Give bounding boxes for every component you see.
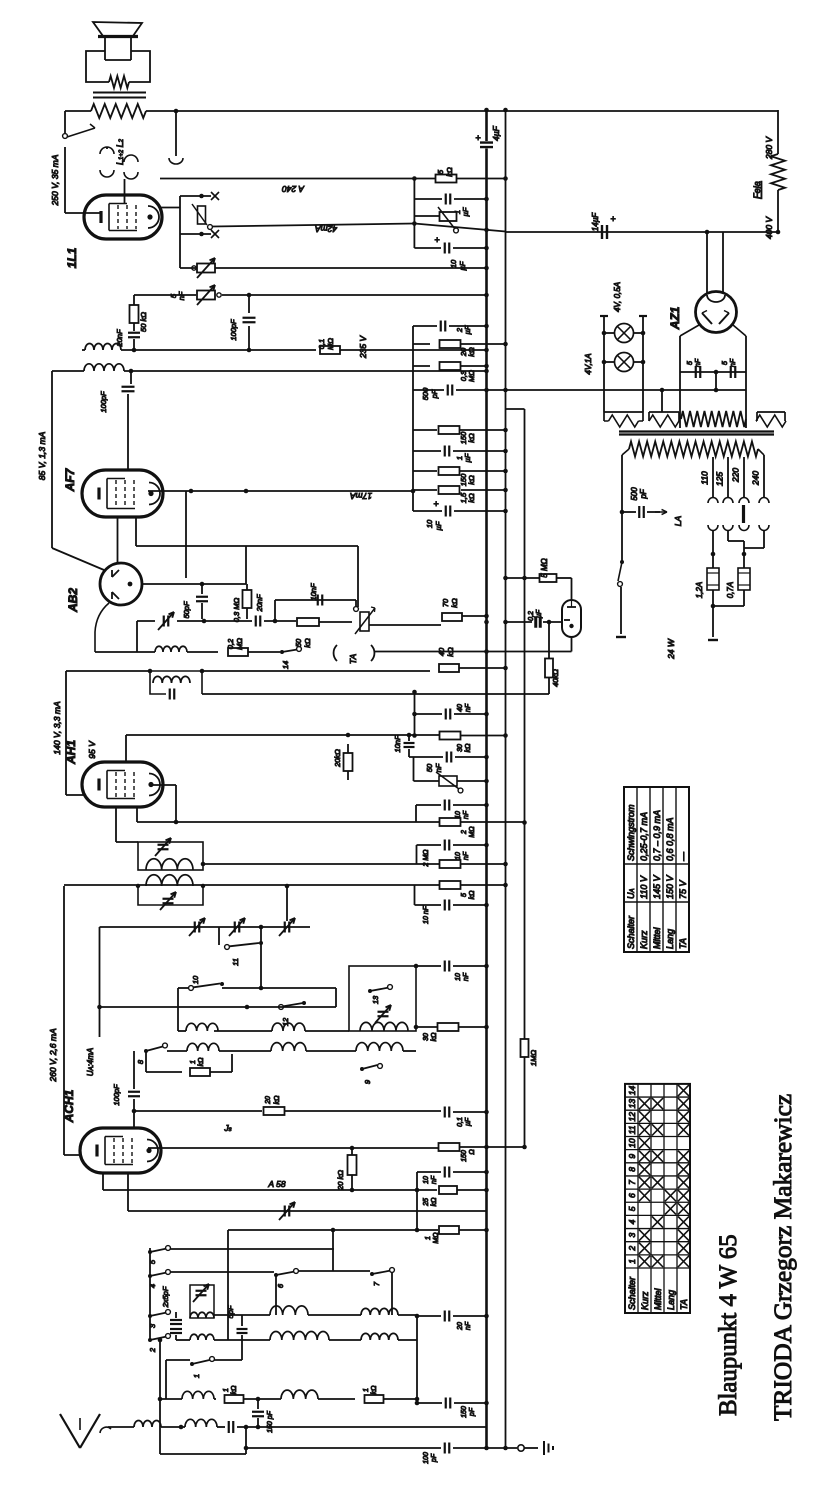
svg-text:MΩ: MΩ	[326, 338, 335, 350]
svg-text:MΩ: MΩ	[235, 638, 244, 650]
svg-text:kΩ: kΩ	[467, 433, 476, 443]
svg-text:2: 2	[148, 1347, 157, 1353]
svg-text:10: 10	[423, 1176, 430, 1184]
svg-text:4µF: 4µF	[491, 125, 501, 141]
svg-text:145 V: 145 V	[652, 874, 662, 899]
svg-text:AB2: AB2	[66, 588, 80, 613]
svg-text:3: 3	[627, 1232, 637, 1237]
svg-text:150: 150	[461, 1150, 468, 1162]
svg-text:Schalter: Schalter	[626, 915, 636, 949]
svg-text:kΩ: kΩ	[431, 1197, 438, 1207]
svg-text:nF: nF	[177, 291, 186, 300]
svg-text:Schalter: Schalter	[627, 1276, 637, 1310]
svg-text:500: 500	[630, 487, 639, 501]
svg-text:500: 500	[421, 387, 430, 400]
svg-text:11: 11	[231, 958, 240, 966]
svg-text:1MΩ: 1MΩ	[529, 1050, 538, 1066]
svg-text:ACH1: ACH1	[62, 1089, 76, 1123]
svg-text:10 nF: 10 nF	[423, 905, 430, 924]
svg-text:13: 13	[371, 995, 380, 1004]
svg-text:nF: nF	[431, 1175, 438, 1184]
svg-text:0,2: 0,2	[528, 611, 535, 621]
svg-text:nF: nF	[730, 358, 737, 367]
svg-text:µF: µF	[458, 261, 467, 270]
svg-text:20kΩ: 20kΩ	[333, 749, 342, 768]
svg-text:pF: pF	[639, 488, 648, 499]
svg-text:7: 7	[627, 1180, 637, 1185]
svg-text:0,6 0,8 mA: 0,6 0,8 mA	[665, 817, 675, 861]
svg-text:100pF: 100pF	[99, 391, 108, 413]
svg-text:24 W: 24 W	[666, 638, 676, 660]
svg-text:5: 5	[722, 361, 729, 365]
svg-text:—: —	[678, 851, 688, 862]
svg-text:110 V: 110 V	[639, 875, 649, 899]
svg-text:220: 220	[731, 468, 741, 483]
svg-text:Kurz: Kurz	[639, 930, 649, 949]
svg-text:4V,1A: 4V,1A	[584, 353, 593, 374]
svg-text:5: 5	[436, 169, 445, 174]
svg-text:Fela: Fela	[752, 181, 762, 199]
svg-text:L1+2 L2: L1+2 L2	[115, 138, 125, 165]
svg-text:10: 10	[449, 259, 458, 268]
svg-text:nF: nF	[465, 703, 472, 712]
svg-text:85 V, 1,3 mA: 85 V, 1,3 mA	[37, 431, 47, 480]
svg-text:20: 20	[265, 1096, 272, 1105]
svg-text:+: +	[475, 133, 480, 143]
svg-text:4: 4	[627, 1219, 637, 1224]
svg-text:5: 5	[687, 361, 694, 365]
svg-text:kΩ: kΩ	[431, 1032, 438, 1042]
svg-text:20 kΩ: 20 kΩ	[336, 1170, 345, 1191]
svg-text:kΩ: kΩ	[450, 598, 459, 608]
svg-text:20nF: 20nF	[255, 594, 264, 613]
svg-text:Ω: Ω	[469, 1149, 476, 1155]
svg-text:0,3 MΩ: 0,3 MΩ	[232, 597, 241, 622]
svg-text:10: 10	[455, 852, 462, 860]
svg-text:Blaupunkt 4 W 65: Blaupunkt 4 W 65	[715, 1234, 742, 1416]
svg-text:140 V, 3,3 mA: 140 V, 3,3 mA	[52, 701, 62, 755]
svg-text:5: 5	[461, 893, 468, 897]
svg-text:MΩ: MΩ	[467, 370, 476, 382]
svg-text:240: 240	[751, 471, 761, 486]
svg-text:µF: µF	[463, 453, 472, 462]
svg-text:µF: µF	[536, 609, 543, 618]
svg-text:10nF: 10nF	[309, 583, 318, 601]
svg-text:12: 12	[627, 1112, 637, 1122]
svg-text:150 pF: 150 pF	[267, 1410, 274, 1433]
svg-text:235 V: 235 V	[358, 335, 368, 360]
svg-text:150 V: 150 V	[665, 874, 675, 899]
svg-text:5: 5	[627, 1206, 637, 1211]
svg-text:125: 125	[715, 472, 725, 486]
svg-text:2: 2	[627, 1246, 637, 1252]
svg-text:UA:4mA: UA:4mA	[86, 1048, 95, 1076]
svg-text:kΩ: kΩ	[467, 493, 476, 503]
svg-text:5pF: 5pF	[226, 1305, 235, 1318]
svg-text:Kurz: Kurz	[640, 1291, 650, 1310]
svg-text:AF7: AF7	[63, 467, 77, 492]
svg-text:kΩ: kΩ	[446, 647, 455, 657]
svg-text:9: 9	[627, 1154, 637, 1159]
svg-text:MΩ: MΩ	[433, 1232, 440, 1244]
svg-text:40: 40	[457, 704, 464, 712]
svg-text:µF: µF	[465, 1117, 472, 1126]
svg-text:nF: nF	[434, 763, 443, 772]
svg-text:50: 50	[425, 763, 434, 772]
svg-text:pF: pF	[469, 1407, 476, 1417]
svg-text:Js: Js	[223, 1123, 231, 1133]
svg-text:1: 1	[425, 1236, 432, 1240]
svg-text:8: 8	[627, 1167, 637, 1172]
svg-text:2 MΩ: 2 MΩ	[423, 849, 430, 868]
svg-text:100: 100	[423, 1452, 430, 1464]
svg-text:100pF: 100pF	[112, 1084, 121, 1106]
svg-text:13: 13	[627, 1099, 637, 1109]
svg-text:A 240: A 240	[282, 184, 305, 194]
svg-text:6: 6	[627, 1193, 637, 1198]
svg-text:1: 1	[363, 1388, 370, 1392]
svg-text:17mA: 17mA	[350, 491, 373, 501]
svg-text:0,1: 0,1	[317, 339, 326, 349]
svg-text:14: 14	[627, 1085, 637, 1095]
svg-text:1: 1	[190, 1060, 197, 1064]
svg-text:kΩ: kΩ	[371, 1385, 378, 1395]
svg-text:10: 10	[191, 975, 200, 984]
svg-text:25: 25	[423, 1198, 430, 1207]
svg-text:TA: TA	[678, 938, 688, 949]
svg-text:8: 8	[136, 1059, 145, 1064]
svg-text:9: 9	[363, 1079, 372, 1084]
svg-text:2x5pF: 2x5pF	[161, 1286, 170, 1308]
svg-text:AH1: AH1	[64, 740, 78, 765]
svg-text:1,2A: 1,2A	[695, 582, 704, 598]
svg-text:14µF: 14µF	[591, 212, 600, 232]
svg-text:30: 30	[457, 744, 464, 752]
svg-text:kΩ: kΩ	[445, 167, 454, 177]
svg-text:kΩ: kΩ	[198, 1057, 205, 1067]
svg-text:50: 50	[294, 638, 303, 647]
svg-text:TA: TA	[679, 1299, 689, 1310]
svg-text:AZ1: AZ1	[668, 306, 682, 330]
svg-text:LA: LA	[673, 515, 683, 526]
svg-text:10: 10	[425, 519, 434, 528]
svg-text:µF: µF	[434, 521, 443, 530]
svg-text:50 kΩ: 50 kΩ	[139, 312, 148, 332]
svg-text:1: 1	[223, 1388, 230, 1392]
svg-text:10: 10	[627, 1138, 637, 1148]
svg-text:A 58: A 58	[267, 1179, 285, 1189]
svg-text:Mittel: Mittel	[652, 926, 662, 949]
svg-text:TA: TA	[348, 654, 358, 665]
svg-text:260 V, 2,6 mA: 260 V, 2,6 mA	[48, 1028, 58, 1083]
svg-text:0,25-0,7 mA: 0,25-0,7 mA	[639, 812, 649, 861]
svg-text:µF: µF	[463, 325, 472, 334]
svg-text:10nF: 10nF	[393, 735, 402, 753]
svg-text:30: 30	[423, 1033, 430, 1041]
svg-text:kΩ: kΩ	[469, 890, 476, 900]
svg-text:0,1: 0,1	[457, 1117, 464, 1127]
svg-text:kΩ: kΩ	[274, 1095, 281, 1105]
svg-text:11: 11	[627, 1125, 637, 1134]
svg-text:kΩ: kΩ	[467, 347, 476, 357]
svg-text:1: 1	[627, 1259, 637, 1264]
svg-text:µF: µF	[461, 207, 470, 216]
svg-text:40kΩ: 40kΩ	[551, 669, 560, 687]
svg-text:250 V, 35 mA: 250 V, 35 mA	[50, 154, 60, 206]
svg-text:280 V: 280 V	[764, 136, 774, 161]
svg-text:10: 10	[455, 973, 462, 981]
svg-text:pF: pF	[431, 1453, 438, 1463]
svg-text:150: 150	[461, 1406, 468, 1418]
svg-text:14: 14	[281, 661, 290, 669]
svg-text:0,7 – 0,9 mA: 0,7 – 0,9 mA	[652, 810, 662, 861]
svg-text:7: 7	[372, 1281, 381, 1286]
svg-text:MΩ: MΩ	[469, 826, 476, 838]
svg-text:Lang: Lang	[666, 1290, 676, 1310]
svg-text:TRIODA Grzegorz Makarewicz: TRIODA Grzegorz Makarewicz	[769, 1094, 797, 1421]
svg-text:Mittel: Mittel	[653, 1287, 663, 1310]
svg-text:nF: nF	[695, 358, 702, 367]
svg-text:1: 1	[192, 1374, 201, 1378]
svg-text:nF: nF	[463, 972, 470, 981]
svg-text:4V, 0,5A: 4V, 0,5A	[613, 282, 622, 312]
svg-text:50pF: 50pF	[182, 601, 191, 619]
svg-text:95 V: 95 V	[87, 740, 97, 759]
svg-text:400 V: 400 V	[764, 216, 774, 240]
svg-text:kΩ: kΩ	[467, 475, 476, 485]
svg-text:kΩ: kΩ	[465, 743, 472, 753]
svg-text:+: +	[610, 214, 615, 224]
svg-text:+: +	[434, 235, 439, 245]
svg-text:2: 2	[461, 830, 468, 835]
svg-text:pF: pF	[430, 389, 439, 399]
svg-text:kΩ: kΩ	[303, 638, 312, 648]
svg-text:75 V: 75 V	[678, 879, 688, 899]
svg-text:42mA: 42mA	[315, 224, 338, 234]
svg-text:0,7A: 0,7A	[726, 582, 735, 598]
svg-text:nF: nF	[463, 810, 470, 819]
svg-text:100pF: 100pF	[229, 319, 238, 341]
svg-text:110: 110	[700, 471, 710, 485]
svg-text:Lang: Lang	[665, 929, 675, 949]
svg-text:+: +	[433, 499, 438, 509]
svg-text:nF: nF	[465, 1321, 472, 1330]
svg-text:Schwingstrom: Schwingstrom	[626, 804, 636, 861]
svg-text:4: 4	[148, 1284, 157, 1288]
svg-text:6: 6	[276, 1283, 285, 1288]
svg-text:70: 70	[441, 598, 450, 607]
svg-text:20: 20	[457, 1322, 464, 1331]
svg-text:1L1: 1L1	[65, 247, 79, 268]
svg-text:5 MΩ: 5 MΩ	[540, 558, 549, 577]
svg-text:nF: nF	[463, 851, 470, 860]
svg-text:40: 40	[437, 647, 446, 656]
svg-text:kΩ: kΩ	[231, 1385, 238, 1395]
svg-text:0,2: 0,2	[226, 638, 235, 649]
